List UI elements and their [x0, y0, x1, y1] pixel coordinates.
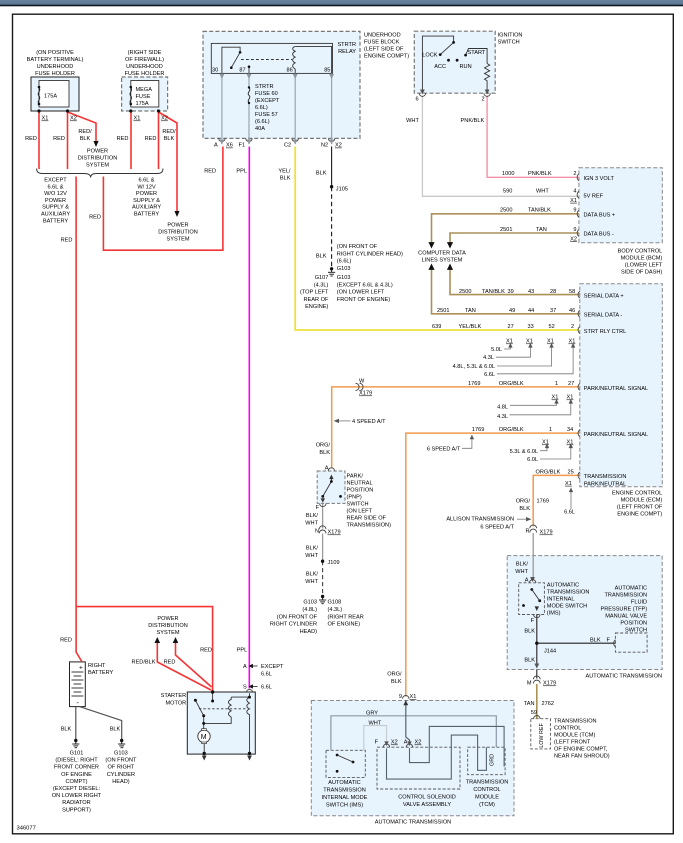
svg-text:STRTR: STRTR [255, 84, 274, 90]
svg-text:BLK/: BLK/ [306, 513, 319, 519]
svg-text:N: N [315, 529, 319, 535]
svg-text:STARTER: STARTER [161, 693, 187, 699]
svg-text:WHT: WHT [536, 189, 549, 195]
svg-text:RED: RED [89, 215, 101, 221]
svg-text:MOTOR: MOTOR [165, 701, 186, 707]
svg-text:RIGHT: RIGHT [88, 663, 106, 669]
svg-text:G103: G103 [114, 751, 128, 757]
svg-text:ORG/: ORG/ [516, 498, 531, 504]
svg-text:BLK: BLK [164, 136, 175, 142]
svg-text:TAN/BLK: TAN/BLK [482, 289, 505, 295]
svg-text:5V REF: 5V REF [584, 193, 604, 199]
svg-text:PARK/NEUTRAL SIGNAL: PARK/NEUTRAL SIGNAL [584, 432, 648, 438]
svg-text:RED: RED [25, 136, 37, 142]
svg-text:WHT: WHT [406, 118, 419, 124]
svg-text:BLK/: BLK/ [306, 546, 319, 552]
svg-text:86: 86 [287, 68, 293, 74]
svg-text:ENGINE COMPT): ENGINE COMPT) [617, 512, 662, 518]
svg-text:BODY CONTROL: BODY CONTROL [618, 249, 663, 255]
svg-text:BLK: BLK [110, 727, 121, 733]
svg-text:POSITION: POSITION [347, 488, 374, 494]
svg-text:J105: J105 [336, 187, 348, 193]
svg-text:(6.6L): (6.6L) [337, 259, 352, 265]
svg-text:6 SPEED A/T: 6 SPEED A/T [427, 447, 461, 453]
svg-text:ENGINE CONTROL: ENGINE CONTROL [612, 491, 662, 497]
svg-text:F1: F1 [239, 143, 246, 149]
svg-text:AUTOMATIC TRANSMISSION: AUTOMATIC TRANSMISSION [586, 674, 662, 680]
svg-text:1: 1 [555, 381, 558, 387]
svg-text:(PNP): (PNP) [347, 495, 362, 501]
svg-text:C2: C2 [284, 143, 291, 149]
svg-text:1769: 1769 [468, 381, 480, 387]
svg-text:AUTOMATIC: AUTOMATIC [547, 583, 579, 589]
svg-text:6 SPEED A/T: 6 SPEED A/T [480, 525, 514, 531]
svg-text:G103: G103 [337, 275, 351, 281]
svg-text:STRT RLY CTRL: STRT RLY CTRL [584, 329, 626, 335]
svg-text:MODULE (TCM): MODULE (TCM) [554, 733, 595, 739]
svg-text:TRANSMISSION: TRANSMISSION [323, 788, 366, 794]
svg-text:X1: X1 [506, 339, 513, 345]
svg-text:1769: 1769 [472, 427, 484, 433]
svg-text:X2: X2 [335, 143, 342, 149]
svg-text:INTERNAL: INTERNAL [547, 597, 575, 603]
svg-text:RED: RED [61, 238, 73, 244]
svg-text:G107: G107 [315, 275, 329, 281]
svg-text:X1: X1 [134, 116, 141, 122]
svg-text:ORG/: ORG/ [316, 443, 331, 449]
svg-text:SUPPLY &: SUPPLY & [133, 198, 160, 204]
svg-text:MODULE (BCM): MODULE (BCM) [621, 256, 663, 262]
svg-text:UNDERHOOD: UNDERHOOD [364, 33, 401, 39]
svg-text:COMPT): COMPT) [65, 779, 87, 785]
svg-text:OF ENGINE: OF ENGINE [61, 772, 92, 778]
svg-text:MODULE (ECM): MODULE (ECM) [621, 498, 663, 504]
svg-text:M: M [527, 681, 532, 687]
svg-text:FRONT OF ENGINE): FRONT OF ENGINE) [337, 297, 390, 303]
svg-text:WHT: WHT [305, 553, 318, 559]
svg-text:4.3L: 4.3L [483, 355, 494, 361]
svg-text:1: 1 [549, 427, 552, 433]
svg-text:LINES SYSTEM: LINES SYSTEM [422, 258, 463, 264]
svg-text:4 SPEED A/T: 4 SPEED A/T [352, 419, 386, 425]
svg-text:POWER: POWER [87, 149, 108, 155]
svg-text:SYSTEM: SYSTEM [166, 237, 189, 243]
svg-text:34: 34 [567, 427, 573, 433]
svg-text:W/O 12V: W/O 12V [44, 191, 67, 197]
svg-text:YEL/BLK: YEL/BLK [459, 324, 482, 330]
svg-text:BLK: BLK [524, 629, 535, 635]
svg-text:49: 49 [509, 308, 515, 314]
svg-text:POWER: POWER [45, 198, 66, 204]
svg-text:A: A [525, 578, 529, 584]
svg-text:X179: X179 [543, 681, 556, 687]
svg-text:TAN: TAN [536, 227, 547, 233]
svg-text:346077: 346077 [17, 826, 36, 832]
svg-text:(DIESEL: RIGHT: (DIESEL: RIGHT [55, 758, 98, 764]
svg-text:175A: 175A [44, 94, 57, 100]
svg-text:AUTOMATIC: AUTOMATIC [328, 780, 360, 786]
svg-text:X2: X2 [570, 236, 577, 242]
svg-text:ORG/BLK: ORG/BLK [536, 469, 561, 475]
svg-text:52: 52 [549, 324, 555, 330]
svg-text:BLK: BLK [80, 136, 91, 142]
svg-text:BATTERY: BATTERY [88, 670, 114, 676]
svg-text:2: 2 [573, 171, 576, 177]
svg-text:UNDERHOOD: UNDERHOOD [37, 64, 74, 70]
svg-text:ENGINE COMPT): ENGINE COMPT) [364, 54, 409, 60]
svg-text:2: 2 [571, 324, 574, 330]
svg-text:X1: X1 [547, 339, 554, 345]
svg-text:PPL: PPL [236, 169, 247, 175]
svg-text:DATA BUS +: DATA BUS + [584, 213, 616, 219]
svg-text:2501: 2501 [500, 227, 512, 233]
svg-text:X1: X1 [410, 694, 417, 700]
svg-text:G103: G103 [303, 600, 317, 606]
svg-text:RED: RED [204, 169, 216, 175]
svg-text:6.6L: 6.6L [564, 510, 575, 516]
svg-text:PNK/BLK: PNK/BLK [461, 118, 485, 124]
svg-text:TAN/BLK: TAN/BLK [528, 208, 551, 214]
svg-text:RED: RED [145, 136, 157, 142]
svg-text:SWITCH: SWITCH [347, 502, 369, 508]
svg-text:DISTRIBUTION: DISTRIBUTION [158, 230, 197, 236]
svg-text:ACC: ACC [434, 64, 446, 70]
svg-text:G108: G108 [328, 600, 342, 606]
svg-text:(ON LOWER LEFT: (ON LOWER LEFT [337, 290, 385, 296]
svg-text:6.6L: 6.6L [261, 685, 272, 691]
svg-text:BLK/: BLK/ [516, 562, 529, 568]
svg-text:BLK: BLK [524, 658, 535, 664]
svg-text:5.3L & 6.0L: 5.3L & 6.0L [510, 449, 538, 455]
svg-text:TAN: TAN [465, 308, 476, 314]
svg-text:ORG/: ORG/ [387, 672, 402, 678]
svg-text:POWER: POWER [157, 616, 178, 622]
svg-text:175A: 175A [136, 101, 149, 107]
svg-text:RED: RED [117, 136, 129, 142]
svg-text:M: M [201, 734, 207, 741]
svg-text:40A: 40A [255, 126, 265, 132]
svg-text:TRANSMISSION: TRANSMISSION [605, 593, 648, 599]
svg-text:W/ 12V: W/ 12V [137, 184, 156, 190]
svg-text:X179: X179 [540, 530, 553, 536]
svg-text:25: 25 [568, 469, 574, 475]
svg-text:RED: RED [60, 638, 72, 644]
svg-text:GRY: GRY [366, 711, 378, 717]
svg-text:(6.6L): (6.6L) [255, 119, 270, 125]
svg-text:DISTRIBUTION: DISTRIBUTION [148, 623, 187, 629]
svg-text:POWER: POWER [136, 191, 157, 197]
svg-text:X179: X179 [359, 391, 372, 397]
svg-text:(RIGHT SIDE: (RIGHT SIDE [128, 50, 162, 56]
svg-text:(4.3L): (4.3L) [314, 282, 329, 288]
svg-text:FUSE BLOCK: FUSE BLOCK [364, 40, 400, 46]
svg-text:AUTOMATIC: AUTOMATIC [615, 586, 647, 592]
svg-text:85: 85 [324, 68, 330, 74]
svg-text:6.6L: 6.6L [484, 372, 495, 378]
svg-text:REAR SIDE OF: REAR SIDE OF [347, 516, 387, 522]
svg-text:BLK/: BLK/ [306, 572, 319, 578]
svg-text:(LOWER LEFT: (LOWER LEFT [625, 263, 663, 269]
svg-text:CONTROL SOLENOID: CONTROL SOLENOID [398, 795, 456, 801]
svg-text:J144: J144 [544, 649, 556, 655]
svg-text:F: F [531, 618, 535, 624]
svg-text:COMPUTER DATA: COMPUTER DATA [418, 251, 466, 257]
svg-text:(ON FRONT OF: (ON FRONT OF [337, 244, 378, 250]
svg-text:X179: X179 [328, 530, 341, 536]
svg-text:(EXCEPT: (EXCEPT [255, 98, 280, 104]
svg-text:590: 590 [503, 189, 512, 195]
svg-text:MANUAL VALVE: MANUAL VALVE [605, 614, 647, 620]
svg-text:SIDE OF DASH): SIDE OF DASH) [621, 270, 662, 276]
svg-text:RIGHT CYLINDER HEAD): RIGHT CYLINDER HEAD) [337, 251, 403, 257]
svg-text:NEUTRAL: NEUTRAL [347, 481, 373, 487]
svg-text:2500: 2500 [459, 289, 471, 295]
svg-text:ORG/BLK: ORG/BLK [499, 427, 524, 433]
svg-text:SUPPORT): SUPPORT) [62, 807, 91, 813]
svg-text:X1: X1 [542, 440, 549, 446]
svg-text:4.8L, 5.3L & 6.0L: 4.8L, 5.3L & 6.0L [453, 364, 495, 370]
svg-text:(4.3L): (4.3L) [328, 607, 343, 613]
svg-text:(LEFT FRONT OF: (LEFT FRONT OF [617, 505, 663, 511]
svg-text:(TOP LEFT: (TOP LEFT [300, 290, 329, 296]
svg-text:4.8L: 4.8L [497, 404, 508, 410]
svg-text:RED/: RED/ [78, 129, 92, 135]
svg-text:X1: X1 [565, 481, 572, 487]
svg-text:EXCEPT: EXCEPT [44, 178, 67, 184]
svg-text:(RIGHT REAR: (RIGHT REAR [328, 614, 364, 620]
svg-text:BATTERY: BATTERY [43, 218, 69, 224]
svg-text:VALVE ASSEMBLY: VALVE ASSEMBLY [403, 802, 451, 808]
svg-text:X1: X1 [570, 198, 577, 204]
svg-text:OF ENGINE COMPT,: OF ENGINE COMPT, [554, 747, 608, 753]
svg-text:28: 28 [550, 289, 556, 295]
svg-text:BLK: BLK [391, 679, 402, 685]
svg-text:TRANSMISSION: TRANSMISSION [547, 590, 590, 596]
svg-text:BLK: BLK [316, 254, 327, 260]
svg-text:OF FIREWALL): OF FIREWALL) [125, 57, 164, 63]
svg-text:(LEFT SIDE OF: (LEFT SIDE OF [364, 47, 404, 53]
svg-text:YEL/: YEL/ [278, 169, 291, 175]
svg-text:X2: X2 [161, 116, 168, 122]
svg-text:RADIATOR: RADIATOR [62, 800, 90, 806]
svg-text:MODE SWITCH: MODE SWITCH [547, 604, 587, 610]
svg-text:A: A [404, 740, 408, 746]
svg-text:44: 44 [528, 308, 534, 314]
svg-text:RED: RED [164, 660, 176, 666]
svg-text:ON LOWER RIGHT: ON LOWER RIGHT [52, 793, 102, 799]
svg-text:IGNITION: IGNITION [498, 33, 523, 39]
svg-text:BLK: BLK [316, 171, 327, 177]
svg-text:WHT: WHT [369, 720, 382, 726]
svg-text:(LEFT FRONT: (LEFT FRONT [554, 740, 591, 746]
svg-text:OF RIGHT: OF RIGHT [108, 765, 135, 771]
svg-text:(EXCEPT 6.6L & 4.3L): (EXCEPT 6.6L & 4.3L) [337, 282, 393, 288]
svg-text:PARK/: PARK/ [347, 474, 364, 480]
svg-text:X2: X2 [391, 740, 398, 746]
svg-text:N2: N2 [321, 143, 328, 149]
svg-text:FUSE 57: FUSE 57 [255, 112, 278, 118]
svg-text:F: F [316, 505, 320, 511]
svg-text:REAR OF: REAR OF [304, 297, 329, 303]
svg-text:A: A [214, 143, 218, 149]
svg-text:30: 30 [212, 68, 218, 74]
svg-text:ALLISON TRANSMISSION: ALLISON TRANSMISSION [446, 517, 514, 523]
svg-text:2: 2 [482, 97, 485, 103]
svg-text:EXCEPT: EXCEPT [261, 664, 284, 670]
svg-text:UNDERHOOD: UNDERHOOD [126, 64, 163, 70]
svg-text:TAN: TAN [524, 701, 535, 707]
svg-text:TRANSMISSION): TRANSMISSION) [347, 523, 392, 529]
svg-text:6.6L: 6.6L [261, 672, 272, 678]
svg-text:SYSTEM: SYSTEM [156, 630, 179, 636]
svg-text:INTERNAL MODE: INTERNAL MODE [322, 795, 368, 801]
svg-text:(ON LEFT: (ON LEFT [347, 509, 373, 515]
svg-text:SERIAL DATA -: SERIAL DATA - [584, 313, 623, 319]
svg-text:9: 9 [573, 208, 576, 214]
svg-text:+: + [79, 665, 83, 672]
svg-text:FUSE HOLDER: FUSE HOLDER [125, 71, 165, 77]
svg-text:SWITCH: SWITCH [625, 628, 647, 634]
svg-text:2500: 2500 [500, 208, 512, 214]
svg-text:BATTERY TERMINAL): BATTERY TERMINAL) [27, 57, 84, 63]
svg-text:AUXILIARY: AUXILIARY [41, 212, 70, 218]
svg-text:(ON FRONT: (ON FRONT [105, 758, 137, 764]
svg-text:2501: 2501 [437, 308, 449, 314]
svg-text:START: START [468, 50, 486, 56]
svg-text:R: R [525, 529, 529, 535]
svg-text:(ON FRONT OF: (ON FRONT OF [277, 614, 318, 620]
svg-text:DATA BUS -: DATA BUS - [584, 232, 614, 238]
svg-text:STRTR: STRTR [337, 42, 356, 48]
svg-text:X1: X1 [42, 116, 49, 122]
svg-text:639: 639 [432, 324, 441, 330]
svg-text:CONTROL: CONTROL [554, 726, 581, 732]
svg-text:6: 6 [416, 97, 419, 103]
svg-text:1769: 1769 [537, 498, 549, 504]
svg-text:RED/: RED/ [162, 129, 176, 135]
svg-text:(4.8L): (4.8L) [302, 607, 317, 613]
svg-text:G103: G103 [337, 266, 351, 272]
svg-text:33: 33 [528, 324, 534, 330]
svg-text:WHT: WHT [305, 579, 318, 585]
svg-text:RED: RED [200, 648, 212, 654]
svg-text:J109: J109 [328, 560, 340, 566]
svg-text:27: 27 [508, 324, 514, 330]
svg-text:IGN 3 VOLT: IGN 3 VOLT [584, 176, 615, 182]
svg-text:6.6L &: 6.6L & [139, 178, 155, 184]
svg-text:(ON POSITIVE: (ON POSITIVE [36, 50, 74, 56]
svg-text:RIGHT CYLINDER: RIGHT CYLINDER [270, 622, 317, 628]
svg-text:FUSE HOLDER: FUSE HOLDER [35, 71, 75, 77]
svg-text:6.6L): 6.6L) [255, 105, 268, 111]
svg-text:87: 87 [239, 68, 245, 74]
svg-text:X1: X1 [569, 339, 576, 345]
svg-text:(IMS): (IMS) [547, 611, 561, 617]
svg-text:POSITION: POSITION [620, 621, 647, 627]
svg-text:CONTROL: CONTROL [473, 787, 500, 793]
svg-text:SERIAL DATA +: SERIAL DATA + [584, 294, 624, 300]
svg-text:G101: G101 [70, 751, 84, 757]
svg-text:X1: X1 [526, 339, 533, 345]
svg-text:TRANSMISSION: TRANSMISSION [466, 780, 509, 786]
svg-text:X2: X2 [415, 740, 422, 746]
svg-text:NEAR FAN SHROUD): NEAR FAN SHROUD) [554, 754, 610, 760]
svg-text:F: F [375, 740, 379, 746]
svg-text:BLK: BLK [61, 727, 72, 733]
svg-text:9: 9 [399, 694, 402, 700]
svg-text:TRANSMISSION: TRANSMISSION [554, 719, 597, 725]
svg-text:PARK/NEUTRAL: PARK/NEUTRAL [584, 482, 626, 488]
svg-text:F: F [607, 638, 611, 644]
svg-text:4: 4 [573, 189, 576, 195]
svg-text:CYLINDER: CYLINDER [107, 772, 135, 778]
svg-text:DISTRIBUTION: DISTRIBUTION [78, 156, 117, 162]
svg-text:AUTOMATIC TRANSMISSION: AUTOMATIC TRANSMISSION [375, 820, 451, 826]
svg-text:4.3L: 4.3L [497, 414, 508, 420]
svg-text:ORG/BLK: ORG/BLK [499, 381, 524, 387]
svg-text:5.0L: 5.0L [491, 347, 502, 353]
svg-text:X1: X1 [567, 395, 574, 401]
svg-text:X1: X1 [552, 395, 559, 401]
svg-text:WHT: WHT [305, 521, 318, 527]
svg-text:W: W [359, 379, 365, 385]
svg-text:RELAY: RELAY [338, 49, 356, 55]
svg-text:PARK/NEUTRAL SIGNAL: PARK/NEUTRAL SIGNAL [584, 386, 648, 392]
svg-text:FLUID: FLUID [631, 600, 647, 606]
svg-text:BATTERY: BATTERY [134, 212, 160, 218]
svg-text:BLK: BLK [319, 450, 330, 456]
svg-text:6.6L &: 6.6L & [48, 184, 64, 190]
svg-text:A: A [243, 664, 247, 670]
svg-text:SUPPLY &: SUPPLY & [42, 205, 69, 211]
svg-text:S: S [243, 685, 247, 691]
svg-text:RUN: RUN [460, 64, 472, 70]
svg-text:OF ENGINE): OF ENGINE) [328, 622, 361, 628]
svg-text:1000: 1000 [502, 171, 514, 177]
svg-text:27: 27 [568, 381, 574, 387]
svg-text:HEAD): HEAD) [112, 779, 130, 785]
svg-text:59: 59 [531, 710, 537, 716]
svg-text:9: 9 [573, 227, 576, 233]
svg-text:LOW REF: LOW REF [539, 723, 545, 748]
svg-text:LOCK: LOCK [422, 53, 438, 59]
svg-text:FUSE: FUSE [136, 94, 151, 100]
svg-text:X6: X6 [226, 143, 233, 149]
svg-text:ENGINE): ENGINE) [305, 304, 328, 310]
svg-text:58: 58 [569, 289, 575, 295]
svg-text:FRONT CORNER: FRONT CORNER [54, 765, 99, 771]
svg-text:RED/BLK: RED/BLK [132, 660, 156, 666]
svg-text:X1: X1 [567, 440, 574, 446]
svg-text:X2: X2 [70, 116, 77, 122]
svg-text:SWITCH (IMS): SWITCH (IMS) [326, 803, 363, 809]
svg-text:MEGA: MEGA [136, 87, 153, 93]
svg-text:SWITCH: SWITCH [498, 40, 520, 46]
svg-text:2762: 2762 [542, 701, 554, 707]
svg-text:39: 39 [508, 289, 514, 295]
svg-text:POWER: POWER [167, 223, 188, 229]
svg-text:43: 43 [528, 289, 534, 295]
svg-text:FUSE 60: FUSE 60 [255, 91, 278, 97]
svg-text:PNK/BLK: PNK/BLK [528, 171, 552, 177]
svg-text:(TCM): (TCM) [479, 802, 495, 808]
svg-text:BLK: BLK [280, 176, 291, 182]
svg-text:A: A [325, 466, 329, 472]
svg-text:(EXCEPT DIESEL:: (EXCEPT DIESEL: [53, 786, 101, 792]
svg-text:6.0L: 6.0L [527, 457, 538, 463]
svg-text:MODULE: MODULE [475, 795, 499, 801]
svg-text:RED: RED [53, 136, 65, 142]
